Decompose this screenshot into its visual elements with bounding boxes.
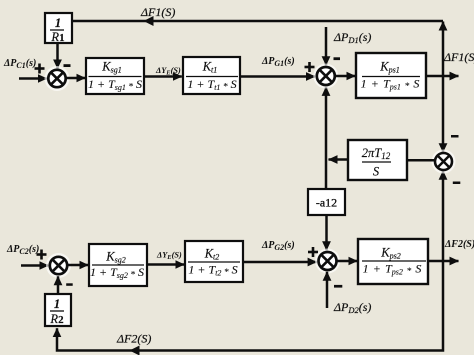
svg-text:1 + Tt1 * S: 1 + Tt1 * S: [187, 77, 236, 93]
wire: top feedback line dF1 to 1/R1: [72, 16, 443, 26]
wire: -a12 down into J4: [325, 215, 328, 250]
sign plus at J2 left: [305, 62, 315, 72]
wire: J4 to Kps2: [337, 260, 357, 263]
wire: Ksg2 to Kt2: [147, 263, 184, 266]
block 1/R2: [45, 294, 71, 326]
wire: dF1 branch down into J3: [442, 76, 445, 152]
svg-text:1 + Tt2 * S: 1 + Tt2 * S: [188, 263, 237, 279]
wire: Kps2 output dF2: [428, 260, 459, 263]
sign minus at J4 bottom: [334, 285, 342, 288]
wire: J3 to 2piT12 block: [408, 159, 435, 162]
sign plus at J4 left: [308, 247, 318, 257]
block Ksg2: [89, 244, 147, 286]
summing junction J2: [313, 64, 338, 89]
wire: dF2 branch up into J3: [442, 171, 445, 261]
wire: vertical from tie node up into J2 bottom: [325, 87, 328, 189]
sign minus at J1 top: [64, 64, 71, 67]
wire: J1 to Ksg1: [66, 77, 86, 80]
block Kps2: [358, 239, 428, 284]
block 2piT12/S: [348, 140, 407, 180]
wire: Ksg1 to Kt1: [145, 75, 182, 78]
svg-text:S: S: [373, 165, 380, 179]
wire: branch up from dF1 output to top line: [442, 22, 445, 77]
svg-text:1: 1: [54, 297, 60, 311]
summing junction J4: [315, 249, 340, 274]
sign plus at J5 left: [37, 250, 47, 260]
svg-text:R1: R1: [50, 30, 64, 44]
wire: bottom feedback dF2 to 1/R2: [57, 261, 443, 355]
svg-text:ΔF1(S): ΔF1(S): [140, 5, 175, 19]
wire: 1/R1 down to sum J1: [56, 43, 59, 69]
block Kps1: [356, 53, 426, 98]
sign minus at J5 bottom: [66, 283, 73, 286]
svg-text:ΔF2(S): ΔF2(S): [444, 239, 474, 250]
sign plus at J1 left: [35, 64, 45, 74]
wire: 1/R2 up into J5: [57, 276, 60, 294]
wire: Kt2 to J4: [243, 261, 317, 264]
svg-text:R2: R2: [49, 312, 64, 326]
wire: input dPc2 arrow: [21, 264, 48, 267]
svg-text:1: 1: [55, 16, 61, 30]
wire: 2piT12 output to vertical node: [329, 158, 349, 161]
wire: dPd2 up into J4: [326, 272, 329, 308]
block 1/R1: [45, 13, 72, 44]
wire: J5 to Ksg2: [67, 264, 88, 267]
summing junction J5: [46, 253, 71, 278]
svg-text:ΔF2(S): ΔF2(S): [116, 332, 151, 346]
wire: dPd1 down into J2: [325, 27, 328, 65]
wire: input dPc1 arrow: [19, 77, 47, 80]
block Kt1: [183, 57, 240, 94]
block Kt2: [185, 241, 243, 282]
svg-text:ΔF1(S): ΔF1(S): [443, 50, 474, 64]
wire: Kt1 to J2: [241, 75, 315, 78]
sign minus at J3 bottom: [453, 182, 461, 185]
sign minus at J3 top: [451, 135, 459, 138]
summing junction J3 tie: [432, 150, 456, 174]
sign minus at J2 top: [334, 57, 341, 60]
block Ksg1: [86, 58, 144, 94]
svg-text:-a12: -a12: [316, 196, 337, 210]
block -a12: [308, 189, 345, 215]
wire: J2 to Kps1: [335, 75, 355, 78]
summing junction J1: [45, 66, 70, 91]
wire: Kps1 output dF1: [426, 75, 459, 78]
